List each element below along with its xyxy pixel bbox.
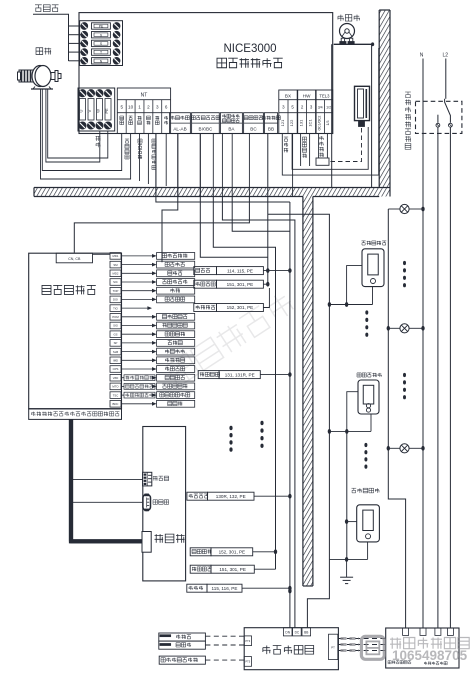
wire dashed buffer to PT3 b (205, 644, 244, 646)
wire top call connections (329, 266, 372, 305)
label car top inspection box name (42, 285, 51, 294)
svg-text:V: V (87, 109, 92, 112)
svg-text:OC1/OC2: OC1/OC2 (318, 115, 322, 130)
pit box connector DN (283, 628, 292, 636)
shaft-outside reset device block (159, 656, 205, 664)
svg-text:TOP: TOP (113, 289, 119, 293)
lamp E1 shaft lighting top (388, 204, 423, 213)
svg-text:1: 1 (138, 105, 141, 110)
wire door-machine branch (162, 134, 178, 263)
ground symbol (340, 559, 353, 583)
label command board (153, 500, 158, 505)
terminal block shaft end signal BX-BC (192, 113, 220, 134)
node bottom door lock junction (288, 494, 291, 499)
wire upper limit to bus (263, 270, 290, 272)
svg-text:130R, 132, PE: 130R, 132, PE (216, 494, 246, 499)
wire fuse stubs (69, 26, 81, 61)
pit box connector PT3 (244, 636, 251, 646)
car top inspection box (29, 253, 122, 419)
svg-text:AL-AB: AL-AB (173, 127, 186, 132)
node top door lock junction (288, 372, 291, 377)
node up slowdown1 junction (266, 282, 269, 287)
node ground branch junction (345, 557, 348, 562)
svg-text:MD1: MD1 (113, 254, 119, 258)
wire BB hall display bus (267, 134, 269, 285)
node call bus top junction (328, 302, 331, 307)
svg-text:122: 122 (289, 119, 294, 126)
ellipsis dots mid column B (260, 421, 263, 448)
svg-text:131, 131R, PE: 131, 131R, PE (225, 372, 255, 377)
node lamp2-N junction (421, 326, 424, 331)
label bottom strip tiny text (31, 412, 119, 416)
svg-text:SP: SP (114, 341, 118, 345)
terminal strip TEL3 (316, 90, 333, 134)
ellipsis dots below top call box (365, 310, 368, 336)
switch S3 machine room lighting contact (436, 115, 440, 127)
svg-text:NT: NT (141, 93, 148, 99)
pit box connector BB (302, 628, 311, 636)
node upper limit junction A (266, 268, 269, 273)
wire up slowdown1 to bus (263, 283, 267, 285)
svg-text:2: 2 (147, 105, 150, 110)
wire up slowdown2 link (263, 288, 269, 308)
terminal box governor wire end (316, 158, 329, 165)
wire BX 122 to governor switch (292, 127, 368, 169)
wire call bus to pit box BB (307, 559, 329, 627)
label brake power (vertical) (125, 139, 129, 143)
governor switch device S1 (355, 86, 370, 126)
COP cable connector (142, 532, 151, 553)
pit box connector DC (293, 628, 302, 636)
lower shaft wall (hatched) (303, 197, 313, 587)
node down limit junction (288, 586, 291, 591)
label motor (vertical) under block (96, 136, 101, 141)
svg-text:IMD: IMD (113, 359, 118, 363)
motor M1 (18, 66, 62, 90)
decorative watermark bottom (not schematic) (341, 636, 385, 659)
governor frame sides (332, 44, 372, 187)
lamp E2 shaft lighting middle (388, 324, 423, 333)
svg-text:PT: PT (331, 646, 335, 650)
svg-text:BB: BB (268, 127, 274, 132)
display board icon (143, 472, 152, 486)
svg-text:SIG: SIG (113, 324, 118, 328)
svg-text:152, 301, PE: 152, 301, PE (227, 305, 254, 310)
label display board (153, 476, 158, 481)
svg-text:121: 121 (280, 119, 285, 126)
lamp E3 shaft lighting bottom (388, 444, 423, 453)
terminal block call display BB (264, 113, 277, 134)
wire lighting feed 2 (449, 127, 451, 628)
wire call bus through wall (268, 214, 330, 304)
node N call branch junction (345, 429, 348, 434)
label down slowdown 2 [152,301,PE] (190, 548, 211, 556)
wire HW 131 stub (300, 134, 302, 167)
wire call bus segment 2 (328, 305, 330, 432)
wire upper limit drop (200, 134, 267, 258)
svg-text:BDC: BDC (113, 402, 119, 406)
svg-text:1/2: 1/2 (326, 106, 331, 110)
svg-text:T: T (100, 51, 102, 55)
wire stubs cabinet-to-floor (156, 134, 293, 197)
speed governor label (338, 15, 344, 21)
node upper limit junction B (288, 268, 291, 273)
svg-text:3: 3 (156, 105, 159, 110)
node down slowdown2 junction (274, 549, 277, 554)
wire TEL3 OC stub (318, 134, 320, 159)
motor terminal block X1 (78, 88, 115, 131)
svg-text:U: U (79, 109, 84, 112)
svg-text:MD2: MD2 (113, 272, 119, 276)
wire L2 line (445, 59, 447, 99)
node call bus N junction (328, 429, 331, 434)
label machine room intercom (vertical under TEL3) (320, 136, 324, 140)
wire TEL3 1/3 stub (326, 134, 328, 159)
svg-text:10: 10 (128, 105, 134, 110)
label power supply line (35, 5, 42, 12)
tension weight switch block (159, 641, 206, 649)
connector boxes on pit lighting box (403, 628, 454, 635)
command board icon (143, 494, 151, 512)
wire fuse-to-contactor gap (0, 0, 1, 1)
node lamp2 left junction (387, 326, 390, 331)
machine room floor slab (hatched) (34, 188, 390, 197)
wire bottom call connections (329, 522, 367, 560)
svg-text:3/4: 3/4 (318, 106, 323, 110)
node lamp3 left junction (387, 446, 390, 451)
svg-text:BA: BA (228, 127, 235, 132)
svg-text:151, 301, PE: 151, 301, PE (219, 567, 246, 572)
svg-text:1/3: 1/3 (326, 121, 330, 126)
label (cabinet name) (217, 58, 227, 68)
node bottom call branch junction (345, 519, 348, 524)
svg-text:DN: DN (285, 631, 290, 635)
svg-text:152, 301, PE: 152, 301, PE (219, 550, 246, 555)
node lamp3-N junction (421, 446, 424, 451)
svg-text:MTO: MTO (112, 385, 119, 389)
wire dashed governor switch to TEL terminals (329, 128, 362, 162)
pit lighting switch box (386, 628, 459, 668)
svg-text:W: W (96, 109, 101, 113)
ellipsis dots lamp column lower (403, 373, 406, 399)
wire down slowdown1 to bus end (254, 568, 275, 570)
label pit inspection box name (263, 646, 271, 655)
pit box connector PT5 (244, 657, 251, 667)
label pit stop switch (388, 661, 411, 664)
label bottom floor door lock [130R,132,PE] (187, 492, 208, 500)
wire N call connections (329, 392, 371, 432)
wire N line (422, 59, 424, 629)
label up slowdown 1 [151,301,PE] (194, 280, 217, 288)
svg-text:6: 6 (165, 105, 168, 110)
terminal strip BX (279, 90, 297, 134)
wire BX 121 to governor frame (282, 48, 378, 175)
wire dashed buffer to PT3 a (205, 635, 244, 637)
svg-text:TSC: TSC (113, 393, 119, 397)
label N floor call box (357, 373, 361, 377)
svg-text:SIC: SIC (113, 280, 118, 284)
svg-text:L2: L2 (443, 53, 449, 59)
svg-text:N: N (420, 53, 424, 59)
wire top door lock to bus (260, 374, 290, 376)
svg-text:BB: BB (304, 631, 308, 635)
svg-text:114, 115, PE: 114, 115, PE (227, 268, 253, 273)
terminal block door lock / safety circuit BA (220, 113, 242, 134)
ellipsis dots mid column A (229, 426, 232, 452)
svg-text:151, 301, PE: 151, 301, PE (227, 282, 254, 287)
svg-text:SLB: SLB (113, 350, 118, 354)
terminal block pit intercom BC (244, 113, 264, 134)
terminal strip HW (298, 90, 316, 134)
travelling cable (thick) (71, 419, 143, 541)
call box bottom floor (357, 505, 380, 542)
svg-text:5: 5 (120, 105, 123, 110)
label speed governor (vertical under BX) (284, 137, 288, 141)
control cabinet U1 NICE3000 outline (79, 13, 333, 134)
label operation box name (155, 534, 164, 543)
svg-text:PT5: PT5 (245, 660, 250, 664)
ellipsis dots below N call box (364, 443, 367, 469)
svg-text:PE: PE (104, 108, 109, 114)
fuse block F1-F5 (80, 21, 123, 66)
svg-text:CN, CB: CN, CB (68, 257, 81, 261)
wire lighting feed 1 (437, 127, 439, 628)
wire branch to cartop box (74, 197, 249, 253)
label top floor call box (362, 241, 366, 245)
label up slowdown 2 [152,301,PE] (194, 304, 217, 312)
wire CN box to MD1 cell (93, 254, 111, 256)
svg-text:1065498705: 1065498705 (392, 648, 468, 663)
wire lamp bus drop (388, 209, 405, 628)
wire bottom door lock to bus (254, 495, 290, 497)
label motor (36, 48, 43, 55)
node lamp1-N junction (421, 207, 424, 212)
svg-text:TEL3: TEL3 (319, 94, 330, 99)
label shaft lighting switch (424, 662, 447, 665)
wires dashed pit box to pit lighting box (338, 639, 385, 651)
svg-text:1C1: 1C1 (308, 119, 313, 127)
wire dashed reset to PT5 (205, 659, 244, 661)
pit box connector PT4 right (329, 634, 338, 659)
switch S2 shaft lighting blade (445, 99, 453, 127)
wire motor leads to terminal blocks (41, 89, 131, 179)
svg-text:SM: SM (113, 263, 118, 267)
wire cartop cable from cabinet (156, 134, 290, 203)
wire mid drop to down-slow bus (213, 197, 275, 570)
label brake feedback (vertical) (138, 139, 142, 143)
decorative watermark skipped-label: none (166, 290, 296, 386)
svg-text:TIO: TIO (113, 306, 118, 310)
label down final limit [115,116,PE] (187, 584, 207, 592)
wire display board link (72, 478, 143, 480)
ellipsis dots lamp column upper (403, 261, 406, 287)
svg-text:HW: HW (303, 94, 311, 99)
switch box machine-room/shaft lighting (dashed) (416, 101, 462, 133)
node governor beam right (371, 42, 374, 46)
wire long drop to DN (232, 197, 290, 232)
svg-text:VZD: VZD (113, 376, 119, 380)
label top floor door lock [131,131R,PE] (198, 371, 219, 379)
wire DC bus (222, 197, 295, 628)
svg-text:DOI: DOI (113, 298, 118, 302)
wire NT column stubs (140, 134, 167, 187)
terminal strip NT (117, 88, 170, 134)
svg-text:POM: POM (112, 315, 119, 319)
upper shaft wall (hatched) (379, 10, 390, 197)
wire down slowdown2 to bus (253, 551, 276, 553)
svg-text:BX: BX (285, 94, 291, 99)
label machine room shaft lighting switch (vertical) (405, 92, 411, 98)
governor mounting beam (334, 43, 373, 45)
node DN wire junction (288, 589, 291, 594)
wire down limit to bus (242, 587, 290, 589)
svg-text:DC: DC (295, 631, 300, 635)
svg-text:GS: GS (113, 332, 117, 336)
node top call branch junction (345, 302, 348, 307)
terminal block trailing cable AL-AB (170, 113, 191, 134)
pit inspection box (244, 628, 338, 670)
svg-text:131: 131 (299, 119, 304, 126)
wire power feed (33, 14, 69, 61)
label motor overheat feedback (vertical) (152, 139, 156, 143)
call box top floor (362, 249, 384, 287)
label call display (vertical under HW) (302, 137, 306, 141)
wire DN bus (289, 202, 291, 628)
wire N-to-bottom branch line (346, 431, 348, 559)
svg-text:PT3: PT3 (245, 639, 250, 643)
wire command board link (72, 501, 143, 503)
svg-text:PE: PE (99, 25, 104, 29)
svg-text:BC: BC (250, 127, 257, 132)
wire HW 1C1 stub (309, 134, 311, 167)
svg-text:BX\BC: BX\BC (199, 127, 213, 132)
operation panel box (COP) (143, 427, 186, 581)
label down slowdown 1 [151,301,PE] (190, 565, 211, 573)
svg-text:CPS: CPS (113, 367, 119, 371)
label upper final limit [114,115,PE] (194, 267, 217, 275)
svg-text:115, 116, PE: 115, 116, PE (212, 586, 238, 591)
device label boxes with arrows (car top peripherals) (121, 253, 195, 408)
buffer switch block (159, 633, 206, 641)
call box N floor (358, 380, 379, 414)
wire call bus segment 3 (328, 431, 330, 559)
svg-text:NICE3000: NICE3000 (223, 43, 276, 55)
label bottom floor call box (352, 488, 357, 493)
speed governor pulley (340, 24, 355, 45)
car top terminal cells column (110, 253, 121, 408)
